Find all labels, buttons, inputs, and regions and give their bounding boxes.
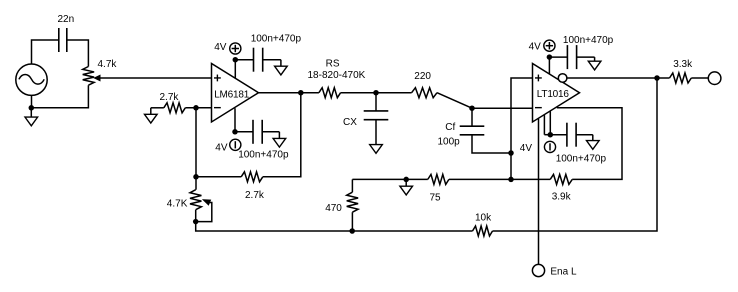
wire Cf node to U2 - input xyxy=(472,107,533,109)
wire V+ to C2 xyxy=(235,59,253,61)
wire U2 V+ to C4 xyxy=(549,56,567,58)
svg-text:220: 220 xyxy=(414,71,431,82)
wire 3.9k to U2 out2 xyxy=(557,108,622,180)
wire R2 to U1 - input xyxy=(185,107,211,109)
svg-text:2.7k: 2.7k xyxy=(160,92,180,103)
svg-text:Cf: Cf xyxy=(445,122,455,133)
wire R9 diagonal to Cf node xyxy=(437,93,472,109)
resistor R9 220 xyxy=(412,88,437,98)
wire Cf bottom xyxy=(472,135,511,153)
wire U2 V+ pin xyxy=(548,57,550,74)
comparator U2 LT1016 xyxy=(533,63,580,121)
resistor R10 3.3k xyxy=(670,73,692,83)
wire source top to C1 xyxy=(32,40,59,64)
junction 470 bottom xyxy=(349,228,355,234)
junction U2 V+ node xyxy=(547,54,553,60)
resistor R3 2.7k feedback xyxy=(241,172,263,182)
junction Cf bottom node xyxy=(508,150,514,156)
resistor R2 2.7k xyxy=(164,103,186,113)
wire pot bottom to source bottom xyxy=(31,85,88,108)
ground C2 xyxy=(275,66,288,75)
resistor R6 75 xyxy=(428,174,449,184)
svg-text:2.7k: 2.7k xyxy=(245,190,265,201)
svg-text:100n+470p: 100n+470p xyxy=(556,153,607,164)
capacitor C4 100n+470p xyxy=(566,45,568,69)
wire C5 to ground xyxy=(576,134,593,136)
ground y179 xyxy=(400,186,413,195)
ground C5 xyxy=(587,141,600,150)
wire C4 to ground xyxy=(577,56,595,58)
svg-text:18-820-470K: 18-820-470K xyxy=(308,70,366,81)
junction plus-net y179 xyxy=(508,177,514,183)
wire 470 bottom xyxy=(351,212,353,231)
wire C4 ground stem xyxy=(594,57,596,61)
wire ground to R2 xyxy=(151,107,164,109)
wire 470 top xyxy=(351,179,353,192)
wire C1 to potentiometer top xyxy=(67,40,89,67)
svg-text:4V: 4V xyxy=(529,42,542,53)
potentiometer R1 4.7k body xyxy=(83,67,94,86)
wire CX top xyxy=(375,93,377,111)
pot R4 wiper wire xyxy=(196,203,212,222)
wire U1 V+ pin xyxy=(234,60,236,78)
ground R2 xyxy=(145,114,158,123)
wire wiper to U1 + input xyxy=(100,77,212,79)
svg-text:Ena L: Ena L xyxy=(550,266,577,277)
wire U2 gnd pin B xyxy=(549,111,551,134)
wire plus-net vertical xyxy=(511,78,533,179)
svg-text:75: 75 xyxy=(430,193,442,204)
junction feedback node xyxy=(193,174,199,180)
svg-text:100n+470p: 100n+470p xyxy=(251,34,302,45)
svg-text:100p: 100p xyxy=(438,136,461,147)
ground CX xyxy=(370,145,383,154)
wire CX to ground xyxy=(375,120,377,145)
wire C2 to ground xyxy=(263,59,281,61)
capacitor CX xyxy=(364,110,389,112)
svg-text:100n+470p: 100n+470p xyxy=(238,149,289,160)
capacitor C5 100n+470p xyxy=(566,123,568,147)
U2 output bubble xyxy=(558,74,567,83)
wire C3 ground stem xyxy=(278,132,280,139)
wire inverting vertical xyxy=(195,108,197,190)
svg-text:3.9k: 3.9k xyxy=(552,191,572,202)
wire C2 ground stem xyxy=(280,60,282,66)
junction U1 inverting node xyxy=(193,105,199,111)
svg-text:4.7K: 4.7K xyxy=(167,198,188,209)
terminal output xyxy=(708,72,721,85)
svg-text:10k: 10k xyxy=(475,212,492,223)
junction output node xyxy=(654,75,660,81)
junction U1 V- node xyxy=(232,129,238,135)
AC source V1 xyxy=(16,64,47,95)
wire U1 V- pin xyxy=(234,108,236,132)
wire RS to CX node xyxy=(341,92,376,94)
capacitor C3 100n+470p xyxy=(252,120,254,144)
wire R4 bottom to net xyxy=(196,210,473,231)
supply +4V U1 xyxy=(230,43,241,54)
svg-text:4V: 4V xyxy=(215,143,228,154)
wire C5 ground stem xyxy=(592,135,594,141)
wire 75 to +node xyxy=(449,178,550,180)
junction CX node xyxy=(373,90,379,96)
terminal Ena L xyxy=(532,264,544,276)
pot R1 wiper arrow xyxy=(94,75,100,80)
svg-text:3.3k: 3.3k xyxy=(673,59,693,70)
svg-text:22n: 22n xyxy=(58,14,75,25)
junction gnd node y179 xyxy=(403,177,409,183)
wire y179 ground stem xyxy=(405,179,407,186)
wire R2 ground stem xyxy=(150,108,152,115)
wire source bottom xyxy=(31,95,33,107)
wire 470 top corner xyxy=(352,178,427,180)
supply -4V U1 xyxy=(230,139,241,150)
pot R4 wiper arrow xyxy=(203,200,210,205)
op-amp U1 LM6181 xyxy=(212,63,259,121)
junction U1 V+ node xyxy=(233,57,239,63)
resistor R7 3.9k xyxy=(550,174,572,184)
wire U2 output xyxy=(567,77,657,79)
svg-text:4V: 4V xyxy=(214,42,227,53)
svg-text:LM6181: LM6181 xyxy=(214,90,250,101)
wire R3 to inverting node xyxy=(196,176,241,178)
wire Ena latch pin xyxy=(538,119,540,264)
ground C4 xyxy=(588,61,601,70)
svg-text:4.7k: 4.7k xyxy=(98,59,118,70)
resistor RS xyxy=(319,88,341,98)
wire output to 3.3k xyxy=(657,77,670,79)
junction Cf node xyxy=(469,105,475,111)
ground source xyxy=(25,117,38,126)
ground C3 xyxy=(273,138,286,147)
resistor R5 10k xyxy=(473,226,493,236)
wire Cf top xyxy=(471,108,473,126)
potentiometer R4 4.7K body xyxy=(190,190,201,210)
svg-text:CX: CX xyxy=(343,117,357,128)
capacitor 22n plates xyxy=(58,28,60,52)
junction U1 output node xyxy=(298,90,304,96)
wire U2 pin jog xyxy=(544,134,550,136)
wire U2 gnd pin A xyxy=(543,115,545,135)
supply +4V U2 xyxy=(544,40,555,51)
wire C3 to ground xyxy=(262,131,279,133)
junction source-ground xyxy=(29,105,35,111)
capacitor Cf 100p xyxy=(460,125,485,127)
wire V- to C3 xyxy=(235,131,253,133)
wire U2 V- to C5 xyxy=(550,134,567,136)
wire 10k to output corner xyxy=(493,78,658,231)
svg-text:100n+470p: 100n+470p xyxy=(563,35,614,46)
wire U1 output xyxy=(259,92,319,94)
supply -4V U2 xyxy=(544,141,555,152)
wire CX node to R9 xyxy=(376,92,412,94)
resistor R8 470 xyxy=(347,192,358,212)
wire output down to R3 xyxy=(263,93,301,177)
svg-text:LT1016: LT1016 xyxy=(537,89,570,100)
svg-text:RS: RS xyxy=(326,59,340,70)
junction R4 wiper-bottom xyxy=(193,219,199,225)
wire 3.3k to terminal xyxy=(691,77,708,79)
wire to ground xyxy=(30,108,32,117)
svg-text:4V: 4V xyxy=(520,143,533,154)
svg-text:470: 470 xyxy=(325,203,342,214)
capacitor C2 100n+470p xyxy=(253,48,255,72)
junction U2 V- node xyxy=(548,132,554,138)
